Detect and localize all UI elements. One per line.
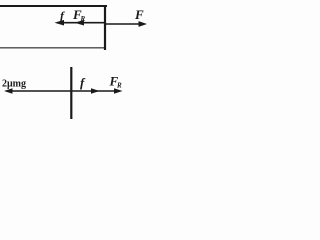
- wire: shaft of rightward force arrows f and F_R (bottom): [71, 90, 119, 92]
- right wall (vertical line closing channel): [104, 5, 106, 50]
- force 2umg arrow (leftward): [7, 90, 71, 92]
- applied force F arrow (rightward): [106, 23, 144, 25]
- arrowhead: friction force f (long left arrow tip): [55, 20, 65, 26]
- svg-text:2μmg: 2μmg: [2, 79, 26, 90]
- arrowhead: friction force f (bottom, short right arrow tip): [91, 88, 100, 94]
- wire: shaft of leftward force arrows f and F_R: [57, 22, 105, 24]
- vertical wall (bottom diagram): [70, 67, 72, 119]
- arrowhead: force F_R (short left arrow tip): [75, 20, 85, 26]
- background: [0, 0, 150, 126]
- arrowhead: force F_R (bottom, long right arrow tip): [114, 88, 123, 94]
- svg-text:R: R: [80, 15, 86, 23]
- top wall (upper horizontal line of channel): [0, 5, 107, 7]
- svg-text:R: R: [116, 82, 122, 90]
- svg-text:F: F: [134, 7, 144, 22]
- bottom wall (lower horizontal line of channel, lighter): [0, 47, 105, 49]
